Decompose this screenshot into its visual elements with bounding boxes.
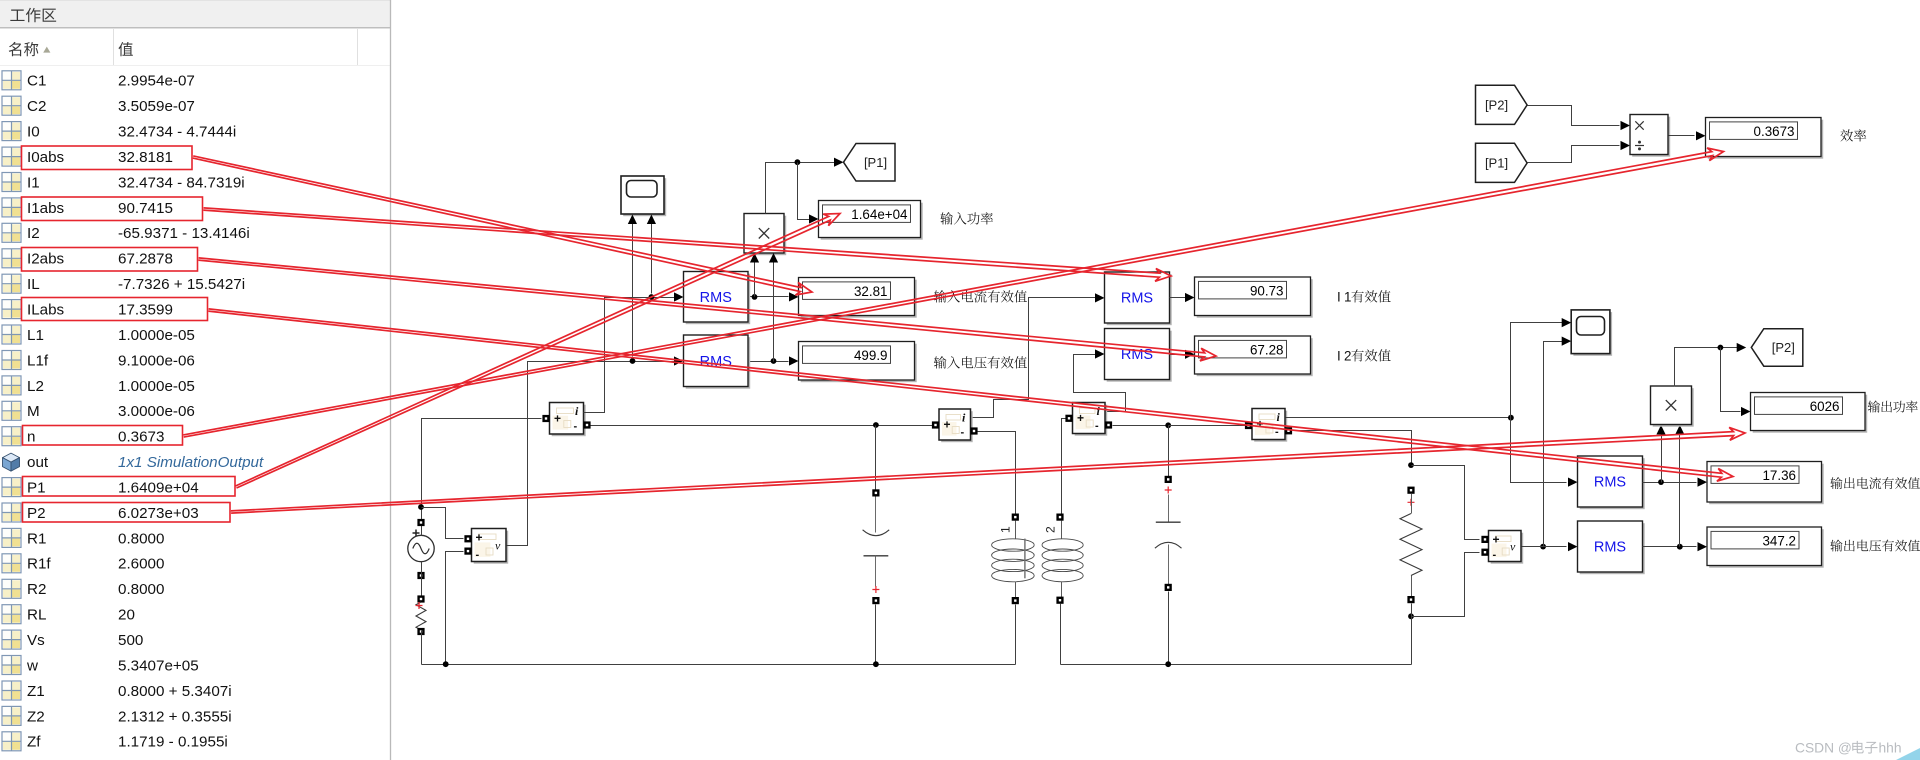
workspace row I1 xyxy=(2,173,21,192)
svg-text:C2: C2 xyxy=(27,98,46,115)
svg-text:0.3673: 0.3673 xyxy=(1754,124,1795,139)
goto tag P1 xyxy=(844,144,896,182)
coupled inductor winding 1 xyxy=(1012,514,1019,521)
annotation arrow P1 to Display1 xyxy=(236,214,841,489)
workspace row L1 xyxy=(2,325,21,344)
display Display9 value 347.2 xyxy=(1709,529,1824,568)
svg-text:I2abs: I2abs xyxy=(27,251,65,268)
svg-text:1.1719 - 0.1955i: 1.1719 - 0.1955i xyxy=(118,734,228,751)
annotation box P1 xyxy=(23,477,236,497)
node i1-signal junction xyxy=(649,294,655,300)
AC voltage source Vs xyxy=(408,535,434,561)
svg-text:[P2]: [P2] xyxy=(1772,340,1795,355)
wire v1 signal to Scope1 input 1 xyxy=(632,223,634,357)
primary ground rail xyxy=(422,664,1016,666)
wire RMS4 out to Display5 xyxy=(1170,354,1190,356)
svg-text:RMS: RMS xyxy=(700,290,732,306)
transformer core line xyxy=(1024,539,1026,579)
current measurement i3 xyxy=(1075,405,1108,436)
current measurement i4 xyxy=(1254,411,1287,442)
annotation arrow n to Display6 xyxy=(183,148,1723,437)
RMS block RMS5 xyxy=(1580,458,1645,509)
svg-text:L1: L1 xyxy=(27,327,44,344)
display Display6 value 0.3673 xyxy=(1708,120,1824,159)
wire v1 minus to ground rail xyxy=(446,552,464,665)
wire Product3 out to node B xyxy=(1675,348,1741,387)
svg-text:+: + xyxy=(1077,411,1084,425)
workspace row I2abs xyxy=(2,249,21,268)
workspace row L2 xyxy=(2,376,21,395)
coupled inductor winding 2 xyxy=(1056,514,1063,521)
RMS block RMS3 xyxy=(1107,274,1172,325)
RMS block RMS4 xyxy=(1107,331,1172,382)
svg-text:+: + xyxy=(554,411,561,425)
wire v2 signal riser to Scope2 in2 and to RMS6 xyxy=(1540,544,1546,550)
svg-text:5.3407e+05: 5.3407e+05 xyxy=(118,657,199,674)
svg-text:RMS: RMS xyxy=(1121,291,1153,307)
svg-text:RMS: RMS xyxy=(1594,540,1626,556)
RMS block RMS6 xyxy=(1580,523,1645,574)
svg-text:n: n xyxy=(27,429,35,446)
wire node A down to Display1 xyxy=(798,163,814,220)
svg-text:R1: R1 xyxy=(27,530,46,547)
svg-text:0.3673: 0.3673 xyxy=(118,429,164,446)
svg-text:w: w xyxy=(26,657,38,674)
svg-text:347.2: 347.2 xyxy=(1762,533,1796,548)
workspace row I1abs xyxy=(2,198,21,217)
capacitor C1 branch wire xyxy=(875,426,877,490)
svg-text:out: out xyxy=(27,454,49,471)
resistor R1 bottom port xyxy=(417,628,424,635)
wire node to v1 plus xyxy=(422,508,464,539)
svg-text:Vs: Vs xyxy=(27,632,45,649)
workspace panel title 工作区 xyxy=(10,10,24,22)
wire v1 output to RMS2 riser xyxy=(507,362,633,546)
annotation box I1abs xyxy=(22,197,203,221)
wire Product1 input 1 riser xyxy=(754,258,756,297)
wire i1 signal to RMS1 xyxy=(584,298,652,413)
workspace row ILabs xyxy=(2,300,21,319)
wire i3 minus to C2 node xyxy=(1113,425,1166,427)
svg-text:0.8000: 0.8000 xyxy=(118,581,164,598)
svg-text:RL: RL xyxy=(27,607,46,624)
svg-text:32.8181: 32.8181 xyxy=(118,149,173,166)
workspace row I0 xyxy=(2,122,21,141)
workspace row w xyxy=(2,656,21,675)
svg-text:v: v xyxy=(1510,539,1516,553)
workspace row Z2 xyxy=(2,706,21,725)
svg-text:499.9: 499.9 xyxy=(854,348,888,363)
svg-text:1.0000e-05: 1.0000e-05 xyxy=(118,327,195,344)
annotation arrow I2abs to Display5 xyxy=(198,258,1216,361)
wire node B down to Display7 xyxy=(1721,348,1741,412)
node B junction xyxy=(1718,345,1724,351)
svg-text:v: v xyxy=(495,539,501,553)
workspace row L1f xyxy=(2,351,21,370)
from tag P1 xyxy=(1476,143,1528,182)
voltage measurement v2 xyxy=(1491,533,1524,564)
node load bottom junction xyxy=(1408,613,1414,619)
display Display2 value 32.81 xyxy=(801,280,917,318)
capacitor C1 plus mark xyxy=(872,586,879,593)
resistor R1 top port xyxy=(417,595,424,602)
svg-text:32.81: 32.81 xyxy=(854,284,888,299)
display Display8 value 17.36 xyxy=(1709,464,1824,505)
workspace row IL xyxy=(2,274,21,293)
voltage measurement v1 xyxy=(474,531,509,564)
svg-text:90.7415: 90.7415 xyxy=(118,200,173,217)
node capacitor C2 junction xyxy=(1165,422,1171,428)
RMS block RMS1 (input current) xyxy=(652,297,679,299)
workspace panel background xyxy=(0,0,391,760)
svg-text:L2: L2 xyxy=(27,378,44,395)
svg-text:67.2878: 67.2878 xyxy=(118,251,173,268)
wire load bottom to v2 minus xyxy=(1412,553,1480,617)
annotation arrow P2 to Display7 xyxy=(231,427,1745,513)
svg-text:1: 1 xyxy=(1344,290,1351,305)
workspace row I2 xyxy=(2,223,21,242)
svg-text:2.6000: 2.6000 xyxy=(118,556,164,573)
wire RMS6 out to Display9 with branch to Product3 in2 xyxy=(1643,546,1697,548)
svg-text:I1abs: I1abs xyxy=(27,200,65,217)
annotation box I2abs xyxy=(22,248,198,272)
svg-text:6026: 6026 xyxy=(1810,399,1840,414)
svg-text:R1f: R1f xyxy=(27,556,51,573)
source bottom port xyxy=(417,572,424,579)
svg-text:ILabs: ILabs xyxy=(27,302,65,319)
svg-text:2: 2 xyxy=(1344,349,1351,364)
svg-text:I2: I2 xyxy=(27,225,40,242)
svg-text:2.9954e-07: 2.9954e-07 xyxy=(118,73,195,90)
wire source top to node xyxy=(422,419,542,536)
svg-text:20: 20 xyxy=(118,607,135,624)
RMS block RMS2 xyxy=(686,337,751,389)
svg-text:1: 1 xyxy=(999,526,1013,533)
svg-text:hhh: hhh xyxy=(1879,741,1902,756)
svg-text:+: + xyxy=(944,418,951,432)
capacitor C2 branch wire xyxy=(1168,426,1170,477)
wire Product1 input 2 riser xyxy=(773,258,775,362)
annotation arrow ILabs to Display8 xyxy=(208,309,1733,481)
svg-text:17.3599: 17.3599 xyxy=(118,302,173,319)
display Display7 value 6026 xyxy=(1753,395,1868,433)
wire Product1 output to node A xyxy=(766,163,839,214)
wire v2 output xyxy=(1522,546,1544,548)
wire i2 minus to coil L1 xyxy=(978,432,1016,514)
capacitor C1 xyxy=(872,489,879,496)
capacitor C2 xyxy=(1165,476,1172,483)
svg-text:L1f: L1f xyxy=(27,352,49,369)
svg-text:3.5059e-07: 3.5059e-07 xyxy=(118,98,195,115)
wire coil2 top to i3 plus xyxy=(1062,419,1066,514)
svg-text:-: - xyxy=(1493,549,1497,561)
svg-text:Z2: Z2 xyxy=(27,708,45,725)
label 输出电压有效值 xyxy=(1830,540,1842,552)
wire load node to v2 plus xyxy=(1412,466,1480,540)
wire RMS5 out to Display8 with branch to Product3 in1 xyxy=(1643,482,1697,484)
workspace row Vs xyxy=(2,630,21,649)
svg-text:2.1312 + 0.3555i: 2.1312 + 0.3555i xyxy=(118,708,232,725)
current measurement i2 xyxy=(941,411,973,442)
svg-text:P1: P1 xyxy=(27,480,46,497)
RMS block RMS2 (input voltage) xyxy=(633,361,679,363)
svg-text:0.8000: 0.8000 xyxy=(118,530,164,547)
goto tag P1 xyxy=(834,158,844,167)
wire RMS2 out to Display3 with branch to Product1 in2 xyxy=(749,361,789,363)
workspace row Z1 xyxy=(2,681,21,700)
RMS block RMS1 xyxy=(686,274,751,325)
workspace row n xyxy=(2,427,21,446)
svg-text:1.0000e-05: 1.0000e-05 xyxy=(118,378,195,395)
svg-text:+: + xyxy=(476,531,483,545)
wire C1 to ground rail xyxy=(875,605,877,665)
svg-text:[P2]: [P2] xyxy=(1485,98,1508,113)
wire Product3 input risers xyxy=(1661,431,1663,483)
workspace row out xyxy=(3,453,20,471)
svg-text:0.8000 + 5.3407i: 0.8000 + 5.3407i xyxy=(118,683,232,700)
secondary ground rail xyxy=(1061,664,1412,666)
display Display1 value 1.64e+04 xyxy=(821,203,923,240)
workspace row Zf xyxy=(2,732,21,751)
workspace row RL xyxy=(2,605,21,624)
annotation box P2 xyxy=(23,503,231,523)
svg-text:32.4734 - 4.7444i: 32.4734 - 4.7444i xyxy=(118,124,236,141)
wire From P2 to Divide in1 xyxy=(1528,106,1620,126)
annotation box ILabs xyxy=(22,298,208,321)
product (multiply-divide) block Divide xyxy=(1632,117,1670,157)
workspace row C1 xyxy=(2,71,21,90)
annotation arrow I1abs to Display4 xyxy=(203,208,1171,281)
svg-text:6.0273e+03: 6.0273e+03 xyxy=(118,505,199,522)
svg-text:R2: R2 xyxy=(27,581,46,598)
svg-text:[P1]: [P1] xyxy=(864,155,887,170)
label 输入功率 xyxy=(940,212,953,224)
workspace row P2 xyxy=(2,503,21,522)
annotation box n xyxy=(23,426,183,446)
wire i4 signal out xyxy=(1286,417,1291,419)
svg-text:I0abs: I0abs xyxy=(27,149,65,166)
label 输入电压有效值 xyxy=(934,356,947,368)
svg-text:-: - xyxy=(574,421,578,433)
from tag P2 xyxy=(1476,85,1528,124)
label 输入电流有效值 xyxy=(934,290,947,302)
svg-text:-: - xyxy=(961,427,965,439)
svg-text:-65.9371 - 13.4146i: -65.9371 - 13.4146i xyxy=(118,225,250,242)
svg-text:1.6409e+04: 1.6409e+04 xyxy=(118,480,199,497)
column headers xyxy=(114,29,358,65)
wire Divide out to Display6 xyxy=(1669,135,1695,137)
workspace row P1 xyxy=(2,478,21,497)
current measurement i1 xyxy=(552,405,586,437)
wire coil2 bottom to secondary rail xyxy=(1060,604,1062,665)
workspace row M xyxy=(2,401,21,420)
wire coil1 bottom to primary rail xyxy=(1015,605,1017,665)
wire i2 signal to RMS3 xyxy=(972,298,1100,418)
resistor R1 plus mark xyxy=(416,602,423,609)
svg-text:32.4734 - 84.7319i: 32.4734 - 84.7319i xyxy=(118,174,245,191)
wire RMS1 out to Display2 with branch to Product1 in1 xyxy=(749,296,789,298)
goto tag P2 xyxy=(1751,329,1803,367)
svg-text:I1: I1 xyxy=(27,174,40,191)
workspace row C2 xyxy=(2,96,21,115)
svg-text:3.0000e-06: 3.0000e-06 xyxy=(118,403,195,420)
node A junction xyxy=(795,159,801,165)
wire load bottom to secondary rail xyxy=(1411,604,1413,665)
wire R1 to ground rail xyxy=(421,631,423,665)
wire C2 node to i4 plus xyxy=(1169,425,1246,427)
node load top junction xyxy=(1408,462,1414,468)
svg-text:500: 500 xyxy=(118,632,143,649)
svg-text:67.28: 67.28 xyxy=(1250,342,1284,357)
wire i1 signal to Scope1 input 2 xyxy=(651,223,653,294)
workspace row R1 xyxy=(2,528,21,547)
svg-text:RMS: RMS xyxy=(1594,475,1626,491)
svg-text:IL: IL xyxy=(27,276,40,293)
svg-text:2: 2 xyxy=(1044,526,1058,533)
display Display3 value 499.9 xyxy=(801,344,917,383)
Vs plus sign xyxy=(413,530,420,537)
panel right border xyxy=(390,0,392,760)
load resistor RL xyxy=(1407,487,1414,494)
workspace row I0abs xyxy=(2,147,21,166)
resistor R1 xyxy=(416,602,426,630)
svg-text:+: + xyxy=(1493,533,1500,547)
svg-text:-: - xyxy=(1095,420,1099,432)
svg-text:P2: P2 xyxy=(27,505,46,522)
svg-text:M: M xyxy=(27,403,40,420)
label 效率 xyxy=(1840,129,1853,141)
wire i3 signal to RMS4 xyxy=(1074,355,1126,412)
node source-plus junction xyxy=(418,504,424,510)
wire i4 signal riser to Scope2 in1 and down to RMS5 xyxy=(1291,417,1511,419)
svg-text:-: - xyxy=(476,549,480,561)
svg-text:1.64e+04: 1.64e+04 xyxy=(851,207,908,222)
svg-text:-7.7326 + 15.5427i: -7.7326 + 15.5427i xyxy=(118,276,245,293)
wire source to R1 xyxy=(421,562,423,603)
wire i4 minus to load node xyxy=(1293,431,1412,463)
svg-text:I: I xyxy=(1337,290,1341,305)
svg-text:I0: I0 xyxy=(27,124,40,141)
svg-text:1x1 SimulationOutput: 1x1 SimulationOutput xyxy=(118,454,264,471)
label 输出功率 xyxy=(1868,401,1880,413)
wire RMS3 out to Display4 xyxy=(1170,297,1190,299)
watermark corner triangle xyxy=(1896,748,1920,760)
svg-text:[P1]: [P1] xyxy=(1485,156,1508,171)
svg-text:90.73: 90.73 xyxy=(1250,283,1284,298)
source top port xyxy=(417,519,424,526)
wire i1 minus to i2 plus xyxy=(591,425,933,427)
display Display4 value 90.73 xyxy=(1197,279,1313,318)
svg-text:9.1000e-06: 9.1000e-06 xyxy=(118,352,195,369)
node capacitor C1 junction xyxy=(873,422,879,428)
svg-text:Zf: Zf xyxy=(27,734,41,751)
workspace row R2 xyxy=(2,579,21,598)
svg-text:17.36: 17.36 xyxy=(1762,468,1796,483)
annotation arrow I0abs to Display2 xyxy=(193,156,812,295)
svg-text:C1: C1 xyxy=(27,73,46,90)
product block Product1 xyxy=(746,216,786,256)
workspace row R1f xyxy=(2,554,21,573)
wire C2 to secondary rail xyxy=(1168,592,1170,665)
node v1-signal junction xyxy=(630,358,636,364)
annotation box I0abs xyxy=(22,146,193,170)
svg-text:I: I xyxy=(1337,349,1341,364)
scope Scope2 xyxy=(1573,312,1612,356)
svg-text:Z1: Z1 xyxy=(27,683,45,700)
wire From P1 to Divide in2 xyxy=(1528,146,1620,163)
display Display5 value 67.28 xyxy=(1197,338,1313,376)
label 输出电流有效值 xyxy=(1830,477,1842,489)
scope Scope1 xyxy=(623,178,666,216)
svg-text:CSDN @: CSDN @ xyxy=(1795,741,1852,756)
product block Product3 xyxy=(1653,388,1694,427)
